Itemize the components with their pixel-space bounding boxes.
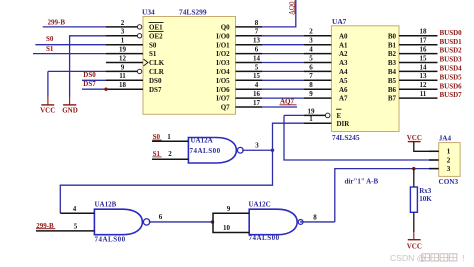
svg-text:4: 4 (255, 81, 259, 89)
svg-text:I/O3: I/O3 (216, 59, 230, 67)
U34 pin 15 (I/O5) (216, 72, 262, 85)
net label S1 (gate input) (152, 150, 161, 158)
svg-text:4: 4 (309, 46, 313, 54)
wire Q0 (net AQ0) (262, 0, 296, 27)
UA7 pin 18 (B0) (388, 28, 438, 41)
power symbol GND (left) (62, 96, 78, 115)
U34 pin 9 (CLR) (106, 63, 165, 76)
svg-text:Q7: Q7 (221, 104, 230, 112)
svg-text:A5: A5 (339, 77, 348, 85)
svg-text:1: 1 (309, 115, 313, 123)
svg-text:74LS299: 74LS299 (179, 8, 207, 17)
svg-text:1: 1 (167, 133, 171, 141)
svg-text:11: 11 (420, 90, 427, 98)
UA12A pin 2 input (152, 150, 188, 159)
svg-text:CSDN @: CSDN @ (390, 253, 425, 263)
resistor label Rx3 (419, 187, 432, 195)
svg-text:8: 8 (255, 19, 259, 27)
svg-text:1: 1 (447, 147, 451, 156)
UA7 pin 8 (A6) (304, 81, 348, 94)
IC U34 74LS299 body (143, 17, 236, 115)
svg-text:11: 11 (119, 72, 126, 80)
svg-text:A1: A1 (339, 41, 348, 49)
svg-text:12: 12 (420, 81, 428, 89)
wire net 299-B to U34 pin 2 (43, 26, 106, 28)
svg-text:10K: 10K (419, 195, 432, 203)
resistor value 10K (419, 195, 432, 203)
UA7 pin 14 (B4) (388, 63, 438, 76)
svg-text:DIR: DIR (337, 120, 351, 128)
wire VCC to JA4 pin 1 (414, 142, 439, 152)
wire tying UA12C inputs together (213, 213, 249, 232)
svg-text:14: 14 (253, 54, 261, 62)
svg-text:17: 17 (420, 37, 428, 45)
svg-text:18: 18 (420, 28, 428, 36)
JA4 pin 2 (429, 155, 451, 164)
svg-text:16: 16 (253, 90, 261, 98)
svg-text:BUSD6: BUSD6 (440, 82, 463, 90)
svg-text:15: 15 (420, 54, 428, 62)
svg-text:B7: B7 (388, 95, 397, 103)
svg-text:A7: A7 (339, 95, 348, 103)
UA7 pin 15 (B3) (388, 54, 438, 67)
svg-text:6: 6 (255, 46, 259, 54)
JA4 pin 1 (429, 147, 451, 156)
U34 pin 19 (S1) (106, 46, 157, 59)
NAND gate UA12A 74ALS00 (188, 138, 243, 164)
svg-text:BUSD3: BUSD3 (440, 56, 463, 64)
wire U34 pin 3 to GND (70, 36, 106, 97)
svg-text:CLK: CLK (149, 59, 165, 67)
svg-text:I/O2: I/O2 (216, 50, 230, 58)
UA7 pin 6 (A4) (304, 63, 348, 76)
watermark CSDN (390, 253, 465, 263)
U34 pin 11 (DS0) (106, 72, 162, 85)
svg-text:3: 3 (309, 37, 313, 45)
UA12A type label 74ALS00 (190, 147, 221, 155)
svg-text:A0: A0 (339, 32, 348, 40)
svg-text:VCC: VCC (407, 134, 422, 142)
svg-text:B2: B2 (388, 50, 397, 58)
net label BUSD5 (440, 73, 463, 81)
U34 pin 14 (I/O3) (216, 54, 262, 67)
svg-text:CLR: CLR (149, 68, 165, 76)
net label BUSD3 (440, 56, 463, 64)
U34 pin 12 (CLK) (106, 54, 165, 67)
UA7 pin 4 (A2) (304, 46, 348, 59)
UA7 pin 13 (B5) (388, 72, 438, 85)
wire net S0 to U34 pin 1 (35, 44, 106, 46)
svg-text:CON3: CON3 (439, 178, 459, 186)
annotation text dir&quot;1&quot; A-B (345, 178, 379, 186)
svg-text:8: 8 (309, 81, 313, 89)
U34 pin 7 (I/O0) (216, 28, 262, 41)
net label 299-B (gate input) (36, 222, 55, 230)
svg-text:74ALS00: 74ALS00 (249, 234, 280, 242)
U34 pin 6 (I/O2) (216, 46, 262, 59)
UA12B pin 4 input (60, 205, 94, 213)
svg-text:B0: B0 (388, 32, 397, 40)
svg-text:BUSD5: BUSD5 (440, 73, 463, 81)
wire net S1 to U34 pin 19 (33, 53, 106, 55)
svg-text:UA12B: UA12B (95, 200, 117, 208)
svg-text:12: 12 (119, 54, 127, 62)
svg-text:A3: A3 (339, 59, 348, 67)
net label BUSD4 (440, 65, 463, 73)
net label DS7 (83, 80, 96, 88)
svg-text:19: 19 (119, 46, 127, 54)
svg-text:S1: S1 (46, 45, 54, 53)
svg-text:DS7: DS7 (83, 80, 96, 88)
svg-text:18: 18 (119, 81, 127, 89)
svg-text:BUSD2: BUSD2 (440, 47, 463, 55)
svg-text:5: 5 (309, 54, 313, 62)
net label DS0 (83, 71, 96, 79)
svg-text:B6: B6 (388, 86, 397, 94)
svg-text:dir"1" A-B: dir"1" A-B (345, 178, 379, 186)
svg-text:BUSD1: BUSD1 (440, 38, 463, 46)
net label BUSD2 (440, 47, 463, 55)
power symbol VCC (above JA4) (407, 134, 422, 142)
wire I/O6 to A6 (262, 88, 304, 90)
svg-text:B5: B5 (388, 77, 397, 85)
svg-text:OE1: OE1 (149, 24, 163, 32)
svg-text:I/O1: I/O1 (216, 41, 230, 49)
U34 designator label (142, 8, 155, 17)
connector JA4 CON3 body (439, 143, 460, 177)
wire I/O1 to A1 (262, 44, 304, 46)
UA12C pin 10 number (223, 224, 231, 232)
svg-text:74LS245: 74LS245 (332, 133, 360, 142)
U34 pin 1 (S0) (106, 37, 157, 50)
U34 pin 4 (I/O6) (216, 81, 262, 94)
UA7 pin 7 (A5) (304, 72, 348, 85)
svg-text:B4: B4 (388, 68, 397, 76)
power symbol VCC (below resistor) (407, 232, 422, 251)
svg-text:1: 1 (121, 37, 125, 45)
U34 pin 18 (DS7) (106, 81, 162, 94)
svg-text:14: 14 (420, 63, 428, 71)
U34 pin 16 (I/O7) (216, 90, 262, 103)
wire I/O7 to A7 (262, 97, 304, 99)
svg-text:2: 2 (121, 19, 125, 27)
wire I/O0 to A0 (262, 35, 304, 37)
UA7 designator label (332, 17, 347, 26)
svg-text:299-B: 299-B (48, 18, 66, 26)
wire I/O2 to A2 (262, 53, 304, 55)
svg-text:B1: B1 (388, 41, 397, 49)
UA7 pin 16 (B2) (388, 46, 438, 59)
UA12A designator label (191, 137, 213, 145)
svg-text:DS0: DS0 (149, 77, 162, 85)
svg-text:A4: A4 (339, 68, 348, 76)
UA12C designator label (249, 200, 271, 208)
JA4 designator label (439, 134, 452, 142)
svg-text:U34: U34 (142, 8, 155, 17)
U34 type label 74LS299 (179, 8, 207, 17)
svg-text:3: 3 (121, 28, 125, 36)
net label AQ0 (vertical) (288, 1, 296, 16)
UA12B pin 5 input (36, 223, 94, 231)
svg-text:17: 17 (253, 99, 261, 107)
svg-text:A2: A2 (339, 50, 348, 58)
svg-text:UA12C: UA12C (249, 200, 271, 208)
UA7 pin 17 (B1) (388, 37, 438, 50)
svg-text:BUSD0: BUSD0 (440, 29, 463, 37)
power symbol VCC (left) (40, 96, 55, 115)
svg-text:9: 9 (227, 205, 231, 213)
wire I/O5 to A5 (262, 79, 304, 81)
junction at UA12C input (211, 220, 214, 223)
svg-text:B3: B3 (388, 59, 397, 67)
svg-text:9: 9 (121, 63, 125, 71)
svg-text:16: 16 (420, 46, 428, 54)
svg-text:E: E (337, 112, 342, 120)
UA7 pin 9 (A7) (304, 90, 348, 103)
wire UA12A output to UA12B input 4 (60, 150, 272, 213)
svg-text:DS0: DS0 (83, 71, 96, 79)
UA12B pin 6 output wire (149, 213, 213, 222)
svg-text:4: 4 (73, 205, 77, 213)
resistor Rx3 10K (410, 169, 417, 232)
UA12C type label 74ALS00 (249, 234, 280, 242)
svg-text:2: 2 (309, 28, 313, 36)
svg-text:15: 15 (253, 72, 261, 80)
svg-text:JA4: JA4 (439, 134, 452, 142)
wire net DS7 to U34 pin 18 (82, 88, 106, 90)
svg-text:I/O5: I/O5 (216, 77, 230, 85)
UA12C pin 9 number (227, 205, 231, 213)
junction resistor to JA4 pin3 wire (412, 167, 415, 170)
net label 299-B (top) (48, 18, 66, 26)
svg-text:S0: S0 (46, 35, 54, 43)
svg-text:74ALS00: 74ALS00 (95, 236, 126, 244)
svg-text:6: 6 (309, 63, 313, 71)
svg-text:7: 7 (255, 28, 259, 36)
svg-text:S1: S1 (149, 50, 157, 58)
net label AQ7 (280, 97, 297, 105)
wire net DS0 to U34 pin 11 (82, 79, 106, 81)
NAND gate UA12C 74ALS00 (249, 209, 303, 235)
U34 pin 2 (OE1) (106, 19, 164, 32)
UA7 pin 3 (A1) (304, 37, 348, 50)
UA7 pin 12 (B6) (388, 81, 438, 94)
svg-text:19: 19 (308, 107, 316, 115)
svg-text:UA7: UA7 (332, 17, 347, 26)
svg-text:5: 5 (74, 223, 78, 231)
svg-text:74ALS00: 74ALS00 (190, 147, 221, 155)
svg-text:2: 2 (168, 150, 172, 158)
svg-text:UA12A: UA12A (191, 137, 213, 145)
svg-text:I/O7: I/O7 (216, 95, 230, 103)
svg-text:I/O6: I/O6 (216, 86, 230, 94)
UA7 pin 19 (E, enable, active low) (304, 107, 342, 120)
svg-text:A6: A6 (339, 86, 348, 94)
net label BUSD1 (440, 38, 463, 46)
svg-text:OE2: OE2 (149, 32, 163, 40)
svg-text:3: 3 (447, 164, 451, 173)
net label S0 (gate input) (152, 133, 161, 141)
svg-text:DS7: DS7 (149, 86, 162, 94)
U34 pin 5 (I/O4) (216, 63, 262, 76)
net label BUSD0 (440, 29, 463, 37)
svg-text:3: 3 (255, 141, 259, 149)
UA12B type label 74ALS00 (95, 236, 126, 244)
wire I/O3 to A3 (262, 62, 304, 64)
IC UA7 74LS245 body (331, 26, 399, 132)
wire VCC to U34 pin 9 (CLR) (48, 71, 106, 96)
svg-text:10: 10 (223, 224, 231, 232)
UA12C pin 8 output wire to JA4 pin3 row (300, 169, 439, 222)
svg-text:VCC: VCC (40, 107, 55, 115)
svg-text:I/O4: I/O4 (216, 68, 230, 76)
svg-text:BUSD7: BUSD7 (440, 91, 463, 99)
junction on DS7 wire (104, 88, 107, 91)
wire UA7 E pin to JA4 pin 2 (284, 115, 439, 160)
svg-text:9: 9 (309, 90, 313, 98)
JA4 pin 3 (429, 164, 451, 173)
UA7 pin 11 (B7) (388, 90, 438, 103)
net label S1 (left) (46, 45, 54, 53)
svg-text:I/O0: I/O0 (216, 32, 230, 40)
UA7 type label 74LS245 (332, 133, 360, 142)
NAND gate UA12B 74ALS00 (94, 209, 149, 235)
svg-text:BUSD4: BUSD4 (440, 65, 463, 73)
U34 pin 13 (I/O1) (216, 37, 262, 50)
svg-text:13: 13 (253, 37, 261, 45)
svg-text:7: 7 (309, 72, 313, 80)
JA4 type label CON3 (439, 178, 459, 186)
UA7 pin 1 (DIR) (304, 115, 350, 128)
svg-text:6: 6 (159, 213, 163, 221)
wire I/O4 to A4 (262, 70, 304, 72)
net label BUSD7 (440, 91, 463, 99)
U34 pin 17 (Q7) (221, 99, 262, 112)
svg-text:AQ7: AQ7 (280, 97, 295, 105)
svg-text:13: 13 (420, 72, 428, 80)
svg-text:!: ! (463, 253, 465, 263)
UA7 pin 2 (A0) (304, 28, 348, 41)
wire UA12A output to UA7 DIR (273, 123, 305, 150)
UA12A pin 1 input (152, 133, 188, 141)
net label S0 (left) (46, 35, 54, 43)
UA12A pin 3 output wire (242, 141, 272, 150)
svg-text:8: 8 (313, 213, 317, 221)
U34 pin 8 (Q0) (221, 19, 262, 32)
net label BUSD6 (440, 82, 463, 90)
svg-text:S0: S0 (149, 41, 157, 49)
U34 pin 3 (OE2) (106, 28, 164, 41)
svg-text:VCC: VCC (407, 243, 422, 251)
svg-text:Q0: Q0 (221, 24, 230, 32)
svg-text:5: 5 (255, 63, 259, 71)
UA7 pin 5 (A3) (304, 54, 348, 67)
UA12B designator label (95, 200, 117, 208)
svg-text:GND: GND (62, 107, 78, 115)
junction at UA12A output (271, 149, 274, 152)
wire Q7 (net AQ7) (262, 106, 297, 108)
